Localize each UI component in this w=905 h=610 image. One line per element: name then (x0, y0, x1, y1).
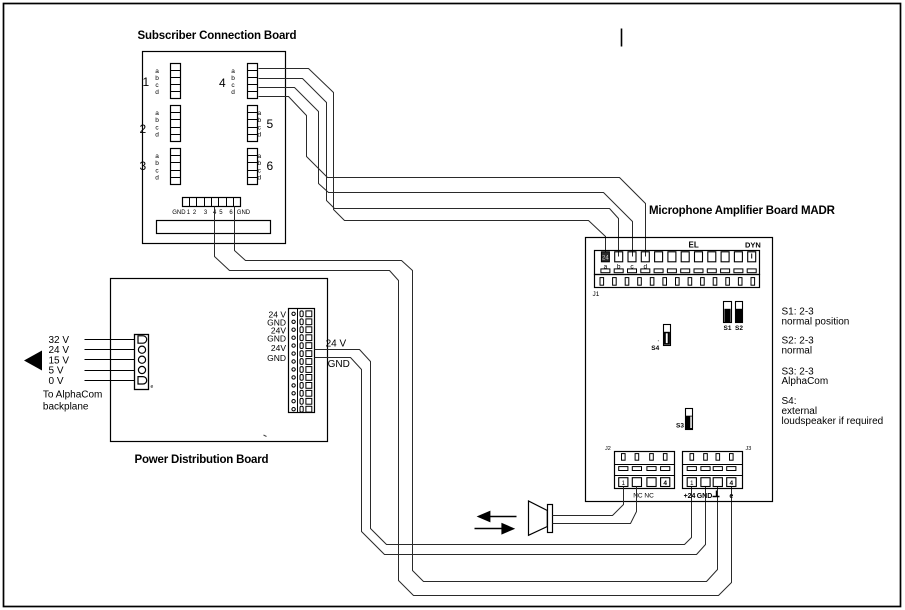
svg-text:24 V: 24 V (326, 338, 347, 349)
svg-text:J2: J2 (605, 446, 611, 452)
wire 5V (85, 370, 135, 372)
wire 24V : power board to J3 +24 (bus 1) (315, 350, 692, 545)
wire 15V (85, 359, 135, 361)
svg-text:S2: S2 (735, 325, 743, 332)
connector J2 (615, 452, 675, 489)
svg-text:normal: normal (782, 346, 813, 357)
svg-text:d: d (155, 132, 159, 139)
svg-text:d: d (155, 175, 159, 182)
svg-text:GND: GND (328, 359, 350, 370)
arrow right (outgoing audio) (475, 528, 503, 530)
svg-text:5 V: 5 V (49, 366, 64, 377)
Subscriber Connection Board outline (143, 52, 286, 244)
svg-text:a: a (257, 153, 261, 160)
svg-text:b: b (231, 75, 235, 82)
svg-text:3: 3 (140, 159, 147, 173)
wire b : connector4 pin b to J1 pin b (259, 79, 619, 257)
switch S1 (724, 302, 732, 323)
connector 3 (171, 149, 181, 185)
svg-text:b: b (257, 160, 261, 167)
switch S2 (736, 302, 743, 323)
svg-text:b: b (257, 117, 261, 124)
svg-text:’: ’ (658, 341, 659, 347)
connector J3 (683, 452, 743, 489)
svg-text:0 V: 0 V (49, 376, 64, 387)
svg-text:DYN: DYN (745, 241, 761, 250)
svg-text:Microphone Amplifier Board MAD: Microphone Amplifier Board MADR (649, 205, 836, 217)
wire GND : power board to J3 GND (bus 2) (315, 358, 706, 555)
stray mark on power board (264, 435, 267, 437)
wire: speaker to J2 pin 1 (553, 487, 624, 516)
svg-text:6: 6 (267, 159, 274, 173)
svg-text:b: b (155, 160, 159, 167)
wire: speaker to J2 pin 2 (553, 487, 637, 524)
svg-text:d: d (231, 89, 235, 96)
svg-text:d: d (155, 89, 159, 96)
switch S3 (686, 409, 693, 430)
svg-text:4: 4 (729, 480, 733, 487)
arrow to backplane (black triangle) (24, 351, 42, 371)
svg-text:d: d (257, 132, 261, 139)
MADR board outline (586, 238, 773, 502)
svg-text:J1: J1 (593, 291, 600, 298)
switch S4 (664, 325, 671, 346)
svg-text:GND: GND (237, 210, 251, 216)
svg-text:a: a (155, 68, 159, 75)
svg-text:24 V: 24 V (49, 345, 70, 356)
loudspeaker (529, 501, 548, 535)
connector 5 (248, 106, 258, 142)
svg-text:GND: GND (172, 210, 186, 216)
svg-text:J3: J3 (746, 446, 752, 452)
long bottom rectangle (157, 221, 271, 234)
wire : strip pin 4 to J3 pin e (bottom bus 4) (215, 207, 732, 596)
svg-text:backplane: backplane (43, 402, 89, 413)
svg-text:24: 24 (602, 256, 609, 262)
wire d : connector4 pin d to J1 pin d (259, 97, 646, 257)
svg-text:loudspeaker if required: loudspeaker if required (782, 416, 884, 427)
bottom pin strip (183, 198, 241, 207)
svg-text:a: a (257, 110, 261, 117)
svg-text:2: 2 (140, 122, 147, 136)
arrow left (incoming audio) (489, 516, 517, 518)
wire c : connector4 pin c to J1 pin c (259, 88, 633, 257)
svg-text:d: d (257, 175, 261, 182)
wire 0V (85, 380, 135, 382)
svg-text:a: a (155, 110, 159, 117)
wire 32V (85, 339, 135, 341)
wire 24V (85, 349, 135, 351)
svg-text:a: a (231, 68, 235, 75)
connector 2 (171, 106, 181, 142)
connector 1 (171, 64, 181, 99)
svg-text:4: 4 (219, 76, 226, 90)
stray tick mark (621, 29, 623, 47)
svg-text:e: e (151, 384, 154, 390)
svg-text:b: b (155, 75, 159, 82)
svg-text:GND: GND (697, 493, 713, 500)
wire a : connector4 pin a to J1 pin a (259, 69, 606, 257)
svg-text:GND: GND (267, 333, 286, 343)
svg-text:S3: S3 (676, 423, 684, 430)
svg-text:1: 1 (143, 75, 150, 89)
svg-text:S1: S1 (724, 325, 732, 332)
svg-text:a: a (155, 153, 159, 160)
power output connector (289, 309, 315, 413)
svg-text:normal position: normal position (782, 316, 850, 327)
J1 pin 24 (dark) (601, 252, 609, 262)
svg-text:24V: 24V (271, 343, 286, 353)
svg-text:+24: +24 (684, 493, 696, 500)
svg-text:Subscriber Connection Board: Subscriber Connection Board (138, 30, 297, 42)
svg-text:Power Distribution Board: Power Distribution Board (135, 454, 269, 466)
svg-text:GND: GND (267, 353, 286, 363)
svg-text:AlphaCom: AlphaCom (782, 376, 829, 387)
svg-text:4: 4 (663, 480, 667, 487)
backplane connector (135, 335, 149, 390)
svg-text:b: b (155, 117, 159, 124)
svg-text:5: 5 (267, 117, 274, 131)
connector 4 (248, 64, 258, 99)
wire : strip GND to J3 ground pin (bottom bus 3) (235, 207, 718, 582)
svg-text:e: e (729, 493, 733, 500)
connector 6 (248, 149, 258, 185)
svg-text:EL: EL (689, 241, 699, 250)
svg-text:To AlphaCom: To AlphaCom (43, 390, 102, 401)
Power Distribution Board outline (111, 279, 328, 442)
